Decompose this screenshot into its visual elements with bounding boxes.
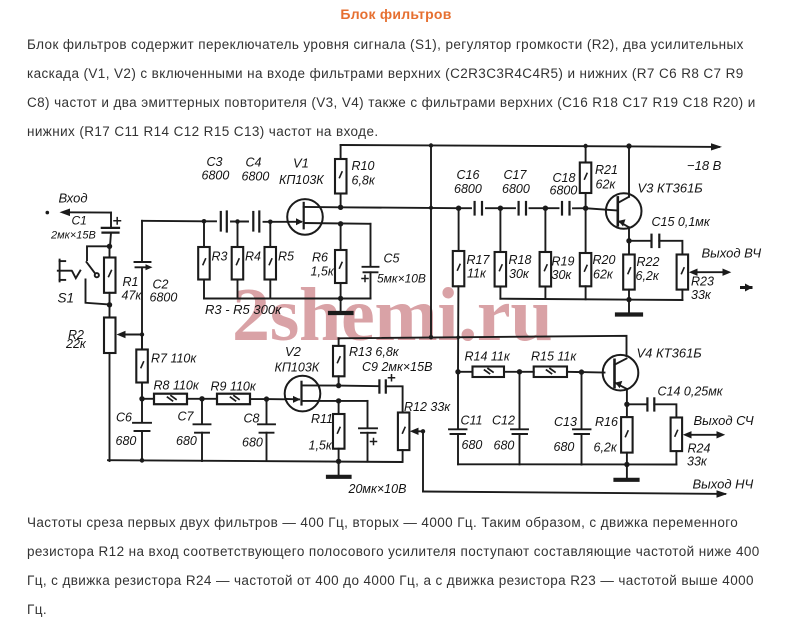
svg-text:S1: S1 (58, 291, 75, 306)
wire R15 to V4 base (582, 371, 605, 373)
svg-text:680: 680 (242, 436, 263, 450)
svg-text:Выход НЧ: Выход НЧ (693, 477, 754, 492)
wire input line with arrow (60, 209, 112, 217)
svg-text:V4 КТ361Б: V4 КТ361Б (637, 346, 703, 361)
svg-text:47к: 47к (122, 289, 143, 303)
resistor R3 (198, 221, 227, 298)
svg-text:R12 33к: R12 33к (404, 400, 451, 414)
svg-text:1,5к: 1,5к (311, 265, 335, 279)
node A junction C1/R1/S1 (107, 244, 112, 249)
svg-text:R1: R1 (123, 275, 139, 289)
node V3 collector rail junction (626, 143, 631, 148)
svg-text:22к: 22к (65, 337, 87, 351)
resistor R19 (540, 208, 575, 299)
svg-text:C8: C8 (244, 412, 260, 426)
svg-text:R14 11к: R14 11к (465, 350, 511, 364)
svg-text:R21: R21 (595, 163, 618, 177)
node R11 rail ground junction (336, 459, 341, 464)
wire bottom rail right block (458, 463, 676, 465)
wire top supply rail (341, 143, 722, 173)
resistor R5 (265, 222, 295, 299)
capacitor C4 (242, 156, 270, 232)
capacitor C18 (550, 171, 578, 215)
wire input down to C1 (110, 213, 112, 228)
node R4 top (235, 219, 240, 224)
node R21 rail junction (583, 144, 587, 148)
svg-text:R23: R23 (691, 275, 714, 289)
svg-text:6800: 6800 (454, 182, 482, 196)
node rail feed junction (429, 143, 433, 147)
svg-text:R8 110к: R8 110к (154, 379, 200, 393)
svg-text:62к: 62к (596, 178, 617, 192)
svg-text:R11: R11 (311, 412, 333, 426)
wire sub supply rail (339, 336, 627, 356)
svg-text:R18: R18 (509, 253, 532, 267)
capacitor C1 (50, 214, 121, 242)
svg-text:R16: R16 (595, 415, 618, 429)
svg-text:C6: C6 (116, 411, 132, 425)
node R16 rail ground junction (624, 462, 629, 467)
transistor V4 (603, 346, 703, 405)
wire R2 wiper arm (117, 331, 143, 338)
svg-text:R4: R4 (245, 250, 261, 264)
svg-text:6800: 6800 (202, 169, 230, 183)
svg-text:C4: C4 (246, 156, 262, 170)
node C7 top (199, 396, 204, 401)
svg-text:C13: C13 (554, 415, 577, 429)
wire S1 lower loop (86, 279, 110, 304)
svg-text:R19: R19 (552, 255, 575, 269)
capacitor C17 (502, 168, 530, 215)
node C12 top (517, 369, 522, 374)
node crossing blob (429, 206, 433, 210)
svg-text:680: 680 (176, 434, 197, 448)
wire LF output line with arrow (423, 477, 754, 498)
capacitor C15 (629, 215, 711, 255)
svg-text:C17: C17 (504, 168, 528, 182)
svg-text:1,5к: 1,5к (309, 439, 333, 453)
resistor R17 (453, 208, 491, 372)
svg-text:33к: 33к (687, 455, 708, 469)
capacitor C7 (176, 399, 211, 461)
svg-text:R10: R10 (352, 159, 375, 173)
wire bottom rail right-top (500, 299, 682, 300)
svg-text:30к: 30к (552, 268, 573, 282)
svg-text:680: 680 (494, 439, 515, 453)
resistor R9 (202, 380, 267, 405)
resistor R21 (580, 146, 618, 208)
capacitor C11 (449, 372, 483, 465)
svg-text:Вход: Вход (59, 191, 88, 206)
ground under R11 (328, 461, 406, 496)
resistor R18 (495, 208, 532, 299)
svg-text:R3 - R5 300к: R3 - R5 300к (205, 302, 282, 317)
switch S1 (58, 260, 99, 306)
svg-text:C9 2мк×15В: C9 2мк×15В (362, 360, 432, 374)
svg-text:2мк×15В: 2мк×15В (50, 230, 96, 242)
node R6 bottom ground junction (338, 296, 343, 301)
wire R12 wiper to LF output (410, 428, 423, 492)
wire R9 to V2 gate (267, 398, 287, 400)
node feed to sub rail (429, 335, 433, 339)
svg-text:R20: R20 (593, 253, 616, 267)
wire S1 upper loop (87, 246, 110, 260)
svg-text:6800: 6800 (550, 184, 578, 198)
node V3 base / R20 R21 (583, 206, 588, 211)
svg-text:6,8к: 6,8к (352, 174, 376, 188)
capacitor C2 (135, 262, 178, 305)
wire C1 to node A (110, 233, 111, 247)
transistor V3 (606, 146, 703, 241)
svg-text:C16: C16 (457, 168, 480, 182)
svg-text:20мк×10В: 20мк×10В (348, 482, 407, 496)
capacitor C5 (362, 224, 426, 299)
capacitor C8 (242, 399, 275, 461)
svg-text:680: 680 (462, 438, 483, 452)
svg-text:C2: C2 (153, 278, 169, 292)
resistor R12 output pot (398, 400, 451, 462)
resistor R23 output pot (677, 255, 714, 303)
wire V1 drain row to HPF2 (341, 207, 586, 208)
svg-text:680: 680 (554, 440, 575, 454)
svg-text:C12: C12 (492, 414, 515, 428)
resistor R22 (623, 241, 660, 300)
node input terminal dot (46, 211, 50, 215)
transistor V1 FET (279, 156, 371, 235)
resistor R1 (104, 246, 142, 304)
ground under R22 (617, 300, 641, 315)
svg-text:6800: 6800 (502, 182, 530, 196)
svg-text:6800: 6800 (150, 291, 178, 305)
resistor R2 volume pot (65, 305, 116, 461)
svg-text:30к: 30к (509, 267, 530, 281)
node C13 top (579, 369, 584, 374)
svg-text:V2: V2 (285, 344, 302, 359)
node V1 drain / R10 (338, 205, 343, 210)
node C6 rail (140, 458, 145, 463)
resistor R11 (309, 401, 345, 461)
svg-text:R17: R17 (467, 253, 491, 267)
resistor R8 (142, 379, 202, 405)
node ground junction right-top (626, 297, 631, 302)
svg-text:Выход ВЧ: Выход ВЧ (702, 246, 762, 261)
capacitor C6 (116, 399, 152, 461)
wire vertical supply feed x431 (430, 146, 432, 338)
svg-text:5мк×10В: 5мк×10В (377, 272, 426, 286)
resistor R13 (333, 338, 400, 385)
node wiper corner (421, 429, 425, 433)
svg-text:6,2к: 6,2к (636, 269, 660, 283)
svg-text:R3: R3 (212, 250, 228, 264)
node V1 source / R6 (338, 221, 343, 226)
node C8 top (264, 396, 269, 401)
svg-text:680: 680 (116, 434, 137, 448)
node B junction R1/R2 (107, 302, 112, 307)
svg-text:C7: C7 (178, 410, 195, 424)
svg-text:КП103К: КП103К (279, 173, 324, 187)
ground under R6 (330, 299, 352, 314)
node V3 emitter junction (626, 238, 631, 243)
node R14 chain input (455, 369, 460, 374)
resistor R6 (311, 224, 347, 299)
node V2 source / R11 (336, 398, 341, 403)
capacitor C3 (202, 155, 230, 232)
svg-text:C1: C1 (72, 214, 87, 228)
wire signal row to HPF (142, 221, 288, 222)
svg-text:6,2к: 6,2к (594, 441, 618, 455)
capacitor C12 (492, 372, 528, 465)
resistor R14 (458, 350, 520, 378)
transistor V2 FET (275, 344, 368, 411)
node R19 top (543, 206, 548, 211)
svg-text:R6: R6 (312, 251, 328, 265)
svg-text:V1: V1 (293, 156, 309, 171)
svg-text:R9 110к: R9 110к (211, 380, 257, 394)
svg-text:C3: C3 (207, 155, 223, 169)
svg-text:R13 6,8к: R13 6,8к (349, 345, 400, 359)
svg-text:C5: C5 (384, 252, 400, 266)
resistor R15 (520, 350, 582, 378)
svg-text:Выход СЧ: Выход СЧ (694, 413, 754, 428)
resistor R16 (594, 404, 633, 464)
node R17 top (456, 206, 461, 211)
wire R23 wiper output (689, 246, 762, 276)
capacitor C13 (554, 372, 591, 465)
svg-text:6800: 6800 (242, 170, 270, 184)
svg-text:R22: R22 (637, 255, 660, 269)
node R7 bottom / C6 / R8 (139, 396, 144, 401)
ground under R16 (616, 465, 638, 480)
resistor R7 (136, 335, 197, 399)
svg-text:62к: 62к (593, 268, 614, 282)
svg-text:11к: 11к (467, 267, 487, 281)
svg-text:C11: C11 (461, 414, 483, 428)
resistor R10 (335, 145, 376, 207)
resistor R4 (232, 222, 261, 299)
node wiper junction (140, 332, 144, 336)
node R5 top (268, 220, 273, 225)
wire bottom rail left (204, 298, 371, 300)
svg-text:−18 В: −18 В (687, 158, 722, 173)
resistor R24 output pot (671, 418, 711, 469)
wire wiper vertical to C2 and R7 (141, 221, 143, 350)
svg-text:C14 0,25мк: C14 0,25мк (658, 385, 724, 399)
node R17 crossing sub rail (456, 336, 460, 340)
node V2 drain / R13 (336, 383, 341, 388)
svg-text:КП103К: КП103К (275, 361, 320, 375)
node small arrow mark (742, 286, 752, 289)
svg-text:V3 КТ361Б: V3 КТ361Б (638, 181, 704, 196)
svg-text:R5: R5 (278, 250, 294, 264)
wire bottom rail left block (108, 460, 402, 462)
svg-text:33к: 33к (691, 288, 712, 302)
wire R24 wiper output (683, 413, 754, 439)
capacitor C14 (627, 385, 724, 418)
svg-text:R24: R24 (688, 442, 711, 456)
resistor R20 (580, 208, 616, 299)
capacitor C9 electrolytic (339, 360, 433, 413)
svg-text:R15 11к: R15 11к (531, 350, 577, 364)
node R18 top (498, 206, 503, 211)
svg-text:R7 110к: R7 110к (151, 352, 197, 366)
svg-text:C15 0,1мк: C15 0,1мк (652, 215, 711, 229)
capacitor C16 (454, 168, 482, 215)
capacitor C10 electrolytic (359, 401, 377, 462)
node V4 emitter junction (624, 402, 629, 407)
node R3 top (202, 219, 207, 224)
